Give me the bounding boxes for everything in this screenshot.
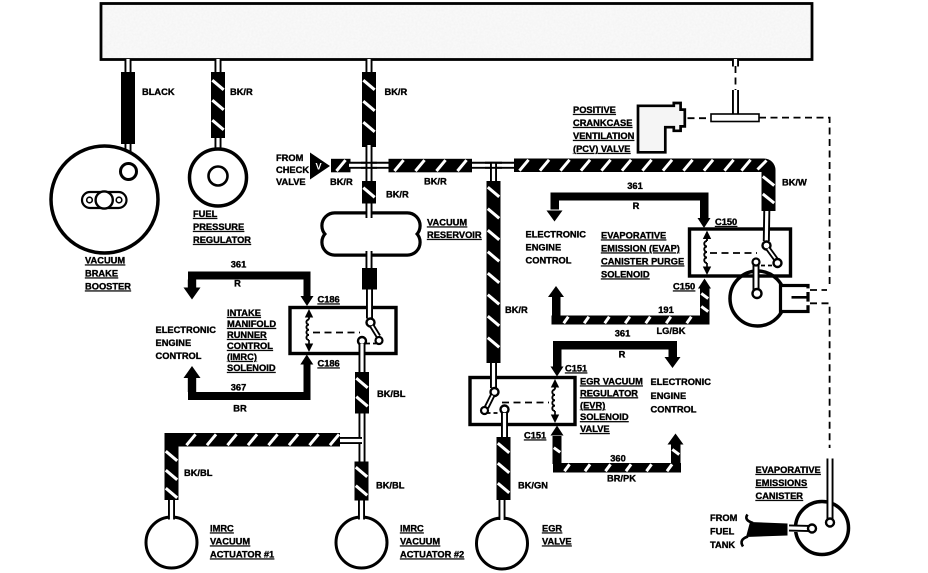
svg-text:BOOSTER: BOOSTER <box>85 282 131 292</box>
svg-text:REGULATOR: REGULATOR <box>580 388 638 398</box>
svg-text:361: 361 <box>615 329 631 339</box>
svg-text:C151: C151 <box>565 364 587 374</box>
wire 360 BR/PK: C151 to EEC <box>551 426 564 436</box>
wire from EGR switch down <box>501 413 508 438</box>
svg-text:VENTILATION: VENTILATION <box>573 131 635 141</box>
hose BLACK (solid) <box>121 72 135 144</box>
hose BK/R check valve to cross junction <box>331 159 351 173</box>
svg-text:CONTROL: CONTROL <box>227 341 273 351</box>
svg-text:ENGINE: ENGINE <box>526 243 562 253</box>
svg-text:BK/BL: BK/BL <box>376 481 405 491</box>
distributor cap connector <box>781 286 809 312</box>
svg-text:EGR VACUUM: EGR VACUUM <box>580 377 643 387</box>
stub from manifold to BK/R hose <box>366 59 373 73</box>
svg-text:VACUUM: VACUUM <box>427 218 467 228</box>
dashed line cap lower terminal down to canister <box>810 303 830 448</box>
svg-text:BK/GN: BK/GN <box>518 481 548 491</box>
svg-text:SOLENOID: SOLENOID <box>601 270 650 280</box>
canister purge port line <box>827 459 834 521</box>
svg-text:BK/R: BK/R <box>385 87 408 97</box>
vacuum reservoir (double capsule) <box>324 215 419 238</box>
svg-text:(IMRC): (IMRC) <box>227 352 257 362</box>
svg-text:BR: BR <box>233 404 247 414</box>
wire from BK/R hose into EGR switch <box>490 364 497 388</box>
EVAP switch pivot <box>763 242 771 250</box>
junction to actuator 1 branch <box>340 437 362 444</box>
distributor advance line <box>753 262 760 293</box>
fuel pressure regulator circle <box>190 149 247 206</box>
svg-text:BK/R: BK/R <box>424 177 447 187</box>
svg-text:ELECTRONIC: ELECTRONIC <box>526 230 587 240</box>
black connector segment below reservoir <box>362 268 377 290</box>
svg-text:ACTUATOR #2: ACTUATOR #2 <box>400 550 464 560</box>
svg-text:PRESSURE: PRESSURE <box>193 222 244 232</box>
distributor circle <box>730 271 785 326</box>
wire 367 BR: C186 to EEC <box>300 355 313 365</box>
svg-text:EGR: EGR <box>542 524 562 534</box>
svg-text:BK/R: BK/R <box>230 87 253 97</box>
svg-text:EVAPORATIVE: EVAPORATIVE <box>601 231 666 241</box>
svg-text:BK/R: BK/R <box>386 190 409 200</box>
fuel tank hose (solid with break) <box>789 525 812 532</box>
svg-text:BK/R: BK/R <box>330 177 353 187</box>
wire 361 R EVAP: EEC to C150 <box>551 193 709 201</box>
svg-text:FROM: FROM <box>276 153 304 163</box>
wire 361 R IMRC: EEC to C186 <box>188 272 311 280</box>
dashed line PCV to tee <box>688 117 713 119</box>
svg-text:ENGINE: ENGINE <box>651 391 687 401</box>
EVAP solenoid coil symbol <box>703 231 711 276</box>
svg-text:C186: C186 <box>318 359 340 369</box>
IMRC vacuum actuator 2 circle <box>336 517 387 568</box>
arrowhead at C150 lower <box>698 279 711 289</box>
svg-text:360: 360 <box>610 454 626 464</box>
svg-text:BK/W: BK/W <box>782 178 807 188</box>
svg-text:(EVR): (EVR) <box>580 400 605 410</box>
svg-text:BR/PK: BR/PK <box>607 474 636 484</box>
hose BK/R to fuel pressure regulator <box>211 72 225 138</box>
dashed line cap upper terminal <box>810 289 827 291</box>
svg-text:CONTROL: CONTROL <box>526 256 572 266</box>
svg-text:VACUUM: VACUUM <box>85 256 125 266</box>
wire to booster check valve grommet <box>124 144 131 164</box>
svg-text:SOLENOID: SOLENOID <box>227 363 276 373</box>
svg-text:RUNNER: RUNNER <box>227 330 267 340</box>
svg-text:IMRC: IMRC <box>210 524 234 534</box>
svg-text:(PCV) VALVE: (PCV) VALVE <box>573 144 631 154</box>
svg-text:R: R <box>619 350 626 360</box>
svg-text:INTAKE: INTAKE <box>227 308 261 318</box>
wire between BK/BL hoses <box>359 414 366 462</box>
dashed link in EGR box <box>502 402 549 404</box>
svg-text:VACUUM: VACUUM <box>400 537 440 547</box>
stub from manifold to BLACK hose <box>125 59 132 73</box>
EGR switch pivot <box>491 388 499 396</box>
wire from IMRC switch down <box>359 344 366 373</box>
wire through IMRC box top to switch <box>366 303 373 319</box>
svg-text:191: 191 <box>658 305 674 315</box>
svg-text:CRANKCASE: CRANKCASE <box>573 118 632 128</box>
hose BK/R cross junction to tee <box>389 159 473 173</box>
svg-text:361: 361 <box>627 181 643 191</box>
svg-text:R: R <box>234 279 241 289</box>
svg-text:CANISTER: CANISTER <box>756 491 804 501</box>
svg-text:CHECK: CHECK <box>276 165 309 175</box>
dashed link in IMRC box <box>313 332 360 334</box>
svg-text:VALVE: VALVE <box>580 424 610 434</box>
EGR solenoid coil symbol <box>551 379 559 423</box>
svg-text:LG/BK: LG/BK <box>657 326 686 336</box>
tee junction to EGR branch <box>472 162 514 169</box>
svg-text:CONTROL: CONTROL <box>156 351 202 361</box>
svg-text:367: 367 <box>231 383 247 393</box>
svg-text:FUEL: FUEL <box>193 209 218 219</box>
main hose BK/R with corner, becomes BK/W <box>514 159 776 212</box>
tee fitting <box>732 90 739 115</box>
svg-text:C150: C150 <box>715 217 737 227</box>
EGR vacuum regulator solenoid box <box>470 378 575 425</box>
hose BK/BL lower to actuator 2 <box>355 462 369 501</box>
svg-text:RESERVOIR: RESERVOIR <box>427 230 482 240</box>
hose BK/R vertical above cross junction <box>362 72 376 147</box>
wire 191 LG/BK: C150 to EEC <box>700 289 710 317</box>
wire from BK/W hose into EVAP solenoid switch <box>763 213 770 241</box>
wire into reservoir top <box>366 204 373 219</box>
EVAP canister purge solenoid box <box>690 229 791 276</box>
svg-text:MANIFOLD: MANIFOLD <box>227 319 276 329</box>
svg-text:C150: C150 <box>673 282 695 292</box>
svg-text:CANISTER PURGE: CANISTER PURGE <box>601 257 684 267</box>
cross junction node <box>349 162 389 169</box>
svg-text:R: R <box>633 201 640 211</box>
hose BK/BL L-shape to actuator 1 <box>165 433 341 447</box>
svg-text:TANK: TANK <box>710 540 735 550</box>
IMRC solenoid box <box>290 308 396 354</box>
svg-text:EMISSIONS: EMISSIONS <box>756 478 808 488</box>
svg-text:ELECTRONIC: ELECTRONIC <box>651 377 712 387</box>
svg-text:BK/R: BK/R <box>505 305 528 315</box>
svg-text:VALVE: VALVE <box>276 177 306 187</box>
wire into IMRC solenoid <box>366 290 373 307</box>
intake manifold (top plenum rectangle) <box>101 4 812 60</box>
booster master cylinder detail <box>82 192 127 208</box>
svg-text:EVAPORATIVE: EVAPORATIVE <box>756 465 821 475</box>
svg-text:361: 361 <box>231 260 247 270</box>
svg-text:VALVE: VALVE <box>542 537 572 547</box>
check valve symbol <box>310 153 330 180</box>
long hose BK/R down to EGR solenoid <box>487 181 501 363</box>
svg-text:BRAKE: BRAKE <box>85 269 118 279</box>
IMRC vacuum actuator 1 circle <box>146 517 197 568</box>
vacuum brake booster circle <box>51 146 158 253</box>
stub from manifold to fuel pressure regulator hose <box>215 59 222 73</box>
svg-text:FUEL: FUEL <box>710 527 735 537</box>
booster grommet circle <box>121 164 137 180</box>
svg-text:C151: C151 <box>524 431 546 441</box>
hose BK/BL upper <box>355 372 369 414</box>
svg-text:POSITIVE: POSITIVE <box>573 105 616 115</box>
svg-text:BK/BL: BK/BL <box>184 468 213 478</box>
evaporative emissions canister circle <box>796 502 849 555</box>
svg-text:C186: C186 <box>318 295 340 305</box>
hose BK/GN <box>497 437 511 500</box>
svg-text:FROM: FROM <box>710 513 738 523</box>
dashed line from manifold stub <box>735 66 737 90</box>
svg-text:CONTROL: CONTROL <box>651 405 697 415</box>
svg-text:VACUUM: VACUUM <box>210 537 250 547</box>
svg-text:REGULATOR: REGULATOR <box>193 235 251 245</box>
hose BK/R below cross junction <box>362 181 376 204</box>
svg-text:V: V <box>316 161 323 171</box>
svg-text:BK/BL: BK/BL <box>377 389 406 399</box>
IMRC solenoid coil symbol <box>305 309 313 352</box>
svg-text:IMRC: IMRC <box>400 524 424 534</box>
wire 361 R EGR: EEC to C151 <box>553 341 677 350</box>
svg-text:BLACK: BLACK <box>142 87 175 97</box>
stub from manifold to PCV tee <box>732 59 739 67</box>
svg-text:EMISSION (EVAP): EMISSION (EVAP) <box>601 244 680 254</box>
dashed link in EVAP box <box>710 252 757 254</box>
svg-text:SOLENOID: SOLENOID <box>580 412 629 422</box>
wire out of reservoir bottom <box>366 251 373 269</box>
PCV valve body (elbow) <box>638 103 685 152</box>
dashed line tee to right then down to distributor cap <box>759 118 830 288</box>
EGR valve circle <box>477 518 528 569</box>
svg-text:ENGINE: ENGINE <box>156 338 192 348</box>
svg-text:ELECTRONIC: ELECTRONIC <box>156 325 217 335</box>
IMRC switch pivot <box>367 319 375 327</box>
svg-text:ACTUATOR #1: ACTUATOR #1 <box>210 550 274 560</box>
